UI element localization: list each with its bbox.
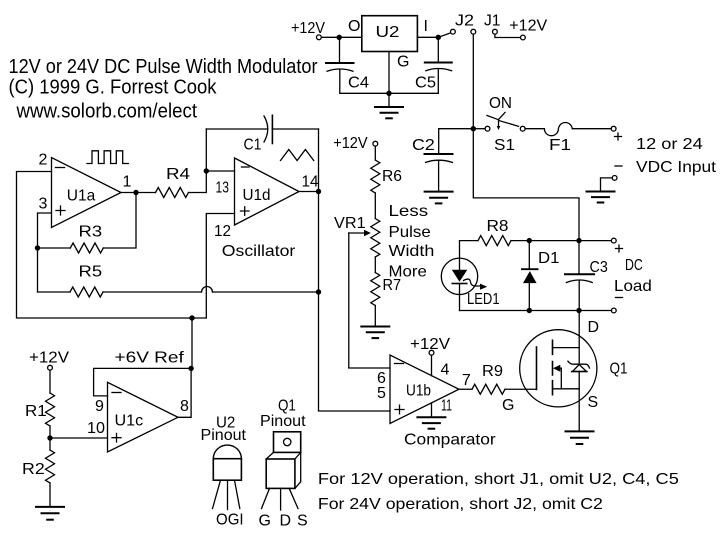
svg-text:+6V Ref: +6V Ref (115, 350, 185, 367)
svg-text:U2: U2 (376, 24, 400, 41)
svg-text:D1: D1 (538, 250, 560, 267)
wire VR1 wiper to U1b pin6 (349, 233, 390, 368)
svg-text:11: 11 (441, 398, 452, 415)
svg-text:C1: C1 (244, 137, 262, 154)
wire ground rail under U2 (340, 92, 439, 94)
svg-text:OGI: OGI (216, 512, 244, 529)
VDC input - terminal (612, 176, 617, 181)
svg-text:C4: C4 (348, 75, 369, 92)
svg-text:Oscillator: Oscillator (222, 243, 296, 260)
svg-text:13: 13 (216, 180, 230, 197)
svg-text:Comparator: Comparator (404, 432, 496, 449)
DC load - terminal (611, 308, 616, 313)
wire R7 to ground (374, 306, 376, 327)
node D1 top junction (527, 238, 532, 243)
svg-text:U1b: U1b (406, 383, 431, 400)
DC load + terminal (611, 238, 616, 243)
resistor R1 (25, 370, 55, 426)
wire divider to U1c pin10 (50, 437, 108, 439)
wire +6V ref tap down (191, 318, 193, 368)
wire U1a pin3 (38, 213, 52, 292)
svg-text:R8: R8 (487, 218, 509, 235)
wire R1 to R2 (49, 426, 51, 450)
wire R9 to gate (505, 388, 537, 390)
node U1c feedback junction (188, 366, 193, 371)
wire to jumper J2 post (438, 33, 451, 38)
wire source to ground (578, 372, 580, 432)
wire U1b output (459, 388, 472, 390)
wire U1b pin4 (431, 355, 433, 376)
svg-text:+12V: +12V (29, 350, 69, 367)
node U1d output junction (316, 189, 321, 194)
node D1 bottom junction (527, 308, 532, 313)
op-amp U1d (214, 158, 319, 260)
svg-text:U1c: U1c (115, 413, 144, 430)
+6V Ref label (115, 350, 185, 367)
wire U2 G pin (388, 52, 390, 94)
diode D1 (522, 241, 560, 311)
svg-text:Pinout: Pinout (201, 427, 247, 444)
wire C1 left leg (205, 129, 207, 171)
wire load bottom rail (460, 310, 612, 312)
wire VDC minus to ground (601, 178, 613, 192)
svg-text:Width: Width (389, 243, 435, 260)
capacitor C5 (415, 37, 452, 93)
svg-text:D: D (280, 513, 292, 530)
ground (R7) (361, 327, 389, 339)
title text (9, 55, 318, 123)
svg-text:For 24V operation, short J2, o: For 24V operation, short J2, omit C2 (318, 496, 603, 513)
ground (U1b) (417, 417, 445, 428)
LED1 (441, 241, 499, 311)
svg-text:G: G (259, 513, 271, 530)
node U2 input junction (436, 35, 441, 40)
wire U1d output vertical to U1b pin5 (319, 129, 391, 411)
node +6V ref tap (189, 315, 194, 320)
svg-text:U1d: U1d (243, 187, 271, 204)
resistor R3 (38, 193, 137, 254)
svg-text:5: 5 (377, 385, 386, 402)
+12V terminal (U1b pin4) (429, 350, 434, 355)
svg-text:3: 3 (39, 196, 48, 213)
svg-text:8: 8 (180, 398, 189, 415)
node drain junction (576, 308, 581, 313)
switch S1 (473, 95, 525, 154)
+12V terminal (R6 top) (373, 141, 378, 146)
wire U1a output (121, 192, 156, 194)
svg-text:O: O (348, 18, 360, 35)
op-amp U1b (377, 355, 496, 449)
Q1 pinout drawing (259, 398, 308, 530)
node R5/U1d output junction (316, 289, 321, 294)
svg-text:Load: Load (614, 278, 652, 295)
svg-text:9: 9 (95, 398, 104, 415)
ground (C2) (425, 192, 453, 204)
wire U1c feedback to pin9 (94, 368, 192, 396)
potentiometer VR1 (334, 215, 380, 257)
wire U2 output to +12V terminal (321, 36, 362, 38)
svg-text:+12V: +12V (410, 336, 450, 353)
resistor R5 (38, 264, 202, 298)
jumper J2 (451, 13, 476, 35)
svg-text:S: S (297, 513, 308, 530)
wire hop (R5 over vertical) (202, 287, 213, 293)
resistor R4 (156, 166, 207, 198)
resistor R2 (22, 450, 55, 483)
node C1/pin13 junction (204, 168, 209, 173)
svg-text:R2: R2 (22, 461, 45, 478)
wire R5 to U1d output line (213, 291, 319, 293)
wire U1b pin11 to ground (431, 403, 433, 417)
svg-text:+12V: +12V (333, 135, 368, 152)
svg-text:LED1: LED1 (467, 291, 500, 308)
resistor R8 (460, 218, 612, 246)
VDC input + terminal (611, 126, 616, 131)
svg-text:R5: R5 (79, 264, 103, 281)
pot direction labels (389, 203, 435, 281)
svg-text:S1: S1 (494, 137, 515, 154)
svg-text:R4: R4 (166, 166, 190, 183)
svg-text:G: G (397, 54, 409, 71)
svg-text:S: S (588, 394, 599, 411)
svg-text:2: 2 (39, 152, 48, 169)
square wave symbol (87, 151, 128, 164)
svg-text:D: D (588, 319, 600, 336)
svg-text:U1a: U1a (67, 188, 96, 205)
wire U2 input (417, 36, 438, 38)
svg-text:+12V: +12V (291, 20, 325, 37)
node C3 top junction (576, 238, 581, 243)
wire U1d pin12 (206, 214, 234, 319)
triangle wave symbol (281, 150, 314, 161)
svg-text:ON: ON (489, 95, 512, 112)
jumper J1 (484, 13, 501, 35)
capacitor C4 (326, 37, 369, 93)
operation notes text (318, 471, 679, 513)
ground (U2 filter) (375, 93, 403, 118)
node ground rail junction (386, 91, 391, 96)
svg-text:G: G (502, 397, 514, 414)
wire J1 to +12V terminal (495, 34, 521, 37)
wire U1a pin2 feedback loop (17, 172, 207, 319)
capacitor C3 (565, 241, 608, 311)
wire R2 to ground (49, 483, 51, 507)
U2 pinout drawing (201, 415, 247, 529)
resistor R9 (472, 363, 505, 394)
resistor R7 (371, 273, 401, 306)
svg-text:Pinout: Pinout (260, 413, 306, 430)
svg-text:R6: R6 (382, 168, 402, 185)
svg-text:Q1: Q1 (610, 361, 628, 378)
node U1a output junction (133, 190, 138, 195)
wire U1c output (178, 368, 191, 417)
svg-text:(C) 1999 G. Forrest Cook: (C) 1999 G. Forrest Cook (9, 76, 218, 99)
svg-text:4: 4 (441, 362, 450, 379)
wire VR1 to R7 (374, 257, 376, 273)
capacitor C2 (412, 129, 473, 192)
svg-text:Less: Less (389, 203, 429, 220)
op-amp U1c (87, 382, 189, 452)
svg-text:+12V: +12V (509, 18, 547, 35)
svg-text:C2: C2 (412, 137, 435, 154)
wire U1d pin13 (206, 170, 234, 172)
node S1/C2 junction (471, 126, 476, 131)
svg-text:www.solorb.com/elect: www.solorb.com/elect (16, 100, 198, 123)
svg-text:J1: J1 (484, 13, 501, 30)
wire R6 to VR1 (374, 193, 376, 219)
svg-text:10: 10 (87, 420, 105, 437)
svg-text:R1: R1 (25, 403, 47, 420)
svg-text:7: 7 (462, 372, 471, 389)
svg-text:F1: F1 (549, 137, 571, 154)
+12V terminal (regulator output) (317, 35, 322, 40)
+12V terminal (R1 top) (48, 365, 53, 370)
op-amp U1a (39, 152, 132, 228)
wire drain (578, 311, 580, 365)
svg-text:DC: DC (625, 257, 643, 274)
svg-text:J2: J2 (455, 13, 474, 30)
ground (R2) (36, 507, 64, 520)
transistor Q1 (MOSFET) (520, 319, 628, 411)
svg-text:For 12V operation, short J1, o: For 12V operation, short J1, omit U2, C4… (318, 471, 679, 488)
regulator U2 (348, 16, 428, 71)
svg-text:I: I (424, 18, 428, 35)
svg-text:C5: C5 (415, 75, 436, 92)
svg-text:R3: R3 (79, 224, 103, 241)
ground (VDC input) (587, 192, 615, 203)
svg-text:Q1: Q1 (278, 398, 296, 415)
svg-text:R9: R9 (482, 363, 503, 380)
svg-text:1: 1 (123, 174, 132, 191)
fuse F1 (525, 123, 611, 154)
resistor R6 (371, 146, 402, 193)
svg-text:C3: C3 (590, 259, 608, 276)
svg-text:12 or 24: 12 or 24 (636, 136, 703, 153)
ground (Q1 source) (566, 431, 594, 444)
+12V terminal (right) (521, 35, 526, 40)
wire U1d output (299, 191, 319, 193)
svg-text:12: 12 (214, 223, 231, 240)
node R3 left junction (35, 245, 40, 250)
svg-text:VR1: VR1 (334, 215, 366, 232)
svg-text:More: More (389, 264, 427, 281)
svg-text:Pulse: Pulse (389, 224, 431, 241)
node U2 output junction (337, 35, 342, 40)
svg-text:VDC Input: VDC Input (636, 159, 717, 176)
wire raw DC feed from J2 down (472, 34, 474, 129)
svg-text:14: 14 (302, 174, 319, 191)
node R1/R2 divider junction (47, 435, 52, 440)
wire raw DC feed down and right (473, 129, 579, 241)
capacitor C1 (206, 115, 318, 153)
